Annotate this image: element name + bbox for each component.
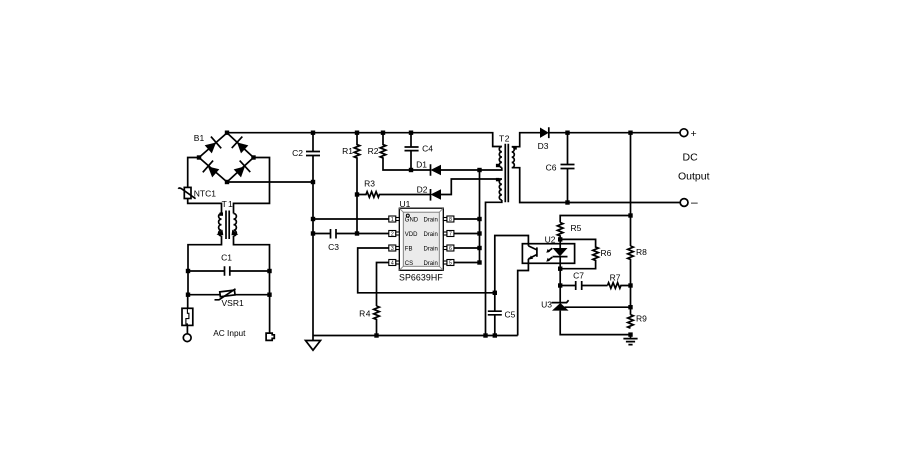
svg-text:5: 5	[449, 261, 452, 267]
node VSR1 right	[267, 293, 271, 297]
node drain top junction	[477, 168, 481, 172]
svg-text:–: –	[691, 195, 698, 209]
wire VSR1 right down to AC terminal right	[269, 295, 271, 333]
wire bulk left rail x=313 upper (to C2 top)	[312, 133, 314, 152]
bridge diode bottom-right	[232, 161, 250, 180]
U1 pin 4 stub	[389, 260, 400, 267]
U1 pin 3 stub	[389, 245, 400, 252]
node bridge bottom	[225, 180, 229, 184]
capacitor C2	[306, 152, 320, 156]
svg-text:1: 1	[391, 217, 394, 223]
node C1 right	[267, 269, 271, 273]
wire drain bus	[479, 170, 481, 263]
node top rail at C4	[409, 131, 413, 135]
diode D2	[430, 189, 432, 201]
bridge diode bottom-left	[203, 161, 221, 180]
svg-text:R7: R7	[610, 273, 621, 283]
T2 primary winding	[499, 147, 502, 168]
wire R5 feed	[560, 216, 630, 223]
svg-text:U3: U3	[541, 299, 552, 309]
wire pin1 GND to bulk rail	[313, 218, 389, 220]
varistor VSR1	[188, 294, 270, 296]
capacitor C6 output	[561, 133, 575, 203]
wire LED line down to U3	[559, 269, 561, 302]
svg-text:R6: R6	[601, 248, 612, 258]
node R3 tap on R1 leg	[355, 192, 359, 196]
U1 pin 2 stub	[389, 231, 400, 238]
svg-text:C6: C6	[546, 163, 557, 173]
svg-text:7: 7	[449, 232, 452, 238]
wire bridge bottom node to bulk rail	[227, 181, 313, 183]
terminal DC minus	[680, 199, 688, 207]
IC U1 body	[399, 208, 443, 270]
svg-text:U1: U1	[400, 199, 411, 209]
svg-text:R2: R2	[368, 146, 379, 156]
capacitor C5	[488, 293, 502, 336]
wire primary ground rail	[313, 335, 518, 337]
node C3 on rail	[311, 231, 315, 235]
node top rail at C2	[311, 131, 315, 135]
node R1 leg on VDD wire	[355, 231, 359, 235]
thermistor NTC1	[184, 187, 191, 198]
svg-text:C4: C4	[422, 144, 433, 154]
T2 aux polarity mark	[496, 178, 499, 181]
U2 phototransistor	[536, 247, 538, 256]
resistor R3	[357, 192, 431, 198]
svg-text:C2: C2	[292, 148, 303, 158]
transformer T1 core	[226, 211, 229, 240]
svg-text:R8: R8	[636, 247, 647, 257]
node O6 top	[565, 131, 569, 135]
wire U3 reference to divider	[565, 306, 631, 308]
T2 core	[505, 144, 508, 203]
svg-text:Drain: Drain	[423, 218, 437, 224]
svg-text:8: 8	[449, 217, 452, 223]
terminal AC right	[266, 333, 274, 340]
svg-text:R9: R9	[636, 314, 647, 324]
svg-text:2: 2	[391, 232, 394, 238]
optocoupler U2 box	[522, 244, 574, 264]
svg-text:R5: R5	[571, 223, 582, 233]
T2 auxiliary winding	[499, 179, 502, 200]
U1 pin1 indicator	[406, 214, 409, 217]
wire top rail from bridge to T2 primary	[227, 133, 502, 147]
node R4 on ground rail	[374, 333, 378, 337]
svg-text:T2: T2	[499, 134, 510, 144]
node top rail at R2	[381, 131, 385, 135]
wire bridge right node down to T1 right winding top	[234, 158, 270, 214]
wire VSR1 left down to fuse	[187, 295, 189, 309]
T2 primary polarity mark	[496, 164, 499, 167]
resistor R4	[374, 306, 380, 336]
transformer T1 left winding	[219, 214, 222, 236]
node drain bus pin5	[477, 260, 481, 264]
wire U2 collector to FB node	[495, 236, 529, 293]
svg-text:DC: DC	[683, 152, 699, 164]
bridge diode top-left	[203, 137, 221, 156]
svg-text:VSR1: VSR1	[222, 298, 244, 308]
svg-text:R4: R4	[359, 309, 371, 319]
U1 pin 7 stub	[443, 231, 454, 238]
wire T1 left winding bottom to C1 left	[188, 236, 222, 271]
node aux return on ground rail	[483, 333, 487, 337]
svg-text:4: 4	[391, 261, 394, 267]
svg-text:C1: C1	[221, 253, 232, 263]
U1 pin 5 stub	[443, 260, 454, 267]
node bridge top	[225, 131, 229, 135]
ground symbol primary	[306, 336, 321, 351]
svg-text:3: 3	[391, 246, 394, 252]
resistor R6 branch	[560, 239, 598, 268]
node bulk rail at bridge return	[311, 180, 315, 184]
wire pin4 CS to R4	[377, 263, 389, 307]
U1 pin 1 stub	[389, 216, 400, 223]
capacitor C1	[188, 266, 270, 275]
svg-text:R1: R1	[342, 146, 353, 156]
bridge rectifier B1 arms	[199, 133, 254, 182]
svg-text:T1: T1	[222, 199, 234, 209]
wire fuse to AC terminal left	[186, 325, 188, 333]
svg-text:Drain: Drain	[423, 261, 437, 267]
svg-text:NTC1: NTC1	[194, 189, 216, 199]
node drain bus pin6	[477, 246, 481, 250]
wire C1 rails down to VSR1 line	[188, 271, 270, 295]
svg-text:SP6639HF: SP6639HF	[399, 272, 443, 282]
svg-text:FB: FB	[405, 247, 413, 253]
shunt regulator U3	[552, 300, 569, 302]
resistor R1	[354, 133, 360, 234]
diode D1	[411, 164, 431, 176]
wire T1 right winding bottom to C1 right	[234, 236, 270, 271]
node VSR1 left	[186, 293, 190, 297]
node bridge right	[251, 155, 255, 159]
node bridge left	[197, 155, 201, 159]
svg-text:D2: D2	[417, 184, 428, 194]
node top rail at R1	[355, 131, 359, 135]
svg-text:R3: R3	[364, 179, 375, 189]
wire bulk left rail x=313 lower (C2 bottom to ground rail)	[312, 156, 314, 336]
wire bridge left node to NTC1	[188, 158, 199, 188]
resistor R8	[628, 246, 634, 315]
wire pin2 VDD with capacitor C3	[313, 229, 389, 239]
T2 secondary winding	[512, 147, 515, 168]
wire drain pins to drain bus	[454, 219, 480, 263]
node drain bus pin7	[477, 231, 481, 235]
wire T2 primary bottom to drain node	[480, 168, 502, 171]
node LED anode / R6 tap	[558, 237, 562, 241]
wire NTC1 bottom to T1 left winding top	[188, 199, 222, 214]
U2 LED	[559, 244, 561, 248]
fuse F1	[182, 308, 193, 325]
svg-text:C3: C3	[328, 242, 339, 252]
ground symbol secondary	[623, 335, 637, 345]
node C5 on ground rail	[493, 333, 497, 337]
svg-text:D1: D1	[416, 159, 427, 169]
node FB / C5 junction	[493, 291, 497, 295]
wire T2 secondary bottom to minus rail	[512, 168, 680, 203]
svg-text:6: 6	[449, 246, 452, 252]
svg-text:C5: C5	[505, 310, 516, 320]
svg-text:Drain: Drain	[423, 232, 437, 238]
svg-text:+: +	[691, 128, 697, 140]
U2 emission arrows	[548, 248, 553, 260]
node drain bus pin8	[477, 217, 481, 221]
svg-text:D3: D3	[538, 141, 549, 151]
wire divider line from plus rail down	[630, 133, 632, 246]
wire pin3 FB to feedback line	[358, 248, 495, 293]
wire T2 secondary top to D3	[512, 133, 540, 147]
capacitor C7	[560, 281, 607, 290]
node divider line top	[628, 131, 632, 135]
svg-text:U2: U2	[545, 234, 556, 244]
node C1 left	[186, 269, 190, 273]
bridge diode top-right	[232, 137, 250, 156]
T1 polarity mark right bottom	[232, 230, 239, 236]
svg-text:VDD: VDD	[405, 232, 418, 238]
U1 pin 6 stub	[443, 245, 454, 252]
wire U2 emitter to primary ground rail	[518, 259, 529, 336]
diode D3	[540, 128, 549, 138]
resistor R5	[557, 223, 563, 244]
node D1 anode junction	[409, 168, 413, 172]
node O6 bottom	[565, 200, 569, 204]
T2 secondary polarity mark	[513, 146, 516, 149]
svg-text:Drain: Drain	[423, 247, 437, 253]
svg-text:GND: GND	[405, 218, 419, 224]
node LED cathode / R6 return	[558, 267, 562, 271]
node secondary ground	[628, 332, 632, 336]
T1 polarity mark left top	[220, 212, 223, 215]
svg-text:C7: C7	[573, 271, 584, 281]
U1 pin 8 stub	[443, 216, 454, 223]
node C7 line right on divider	[628, 283, 632, 287]
resistor R2	[380, 133, 411, 170]
node R5 top wire on divider	[628, 213, 632, 217]
terminal DC plus	[680, 129, 688, 137]
svg-text:Output: Output	[678, 171, 710, 183]
node GND wire on rail	[311, 217, 315, 221]
svg-text:AC Input: AC Input	[213, 328, 246, 338]
terminal AC left	[183, 334, 191, 342]
resistor R7	[608, 283, 631, 289]
wire T2 aux bottom return to ground rail	[486, 200, 502, 336]
node C7 line left	[558, 283, 562, 287]
svg-text:B1: B1	[194, 133, 205, 143]
node reference on divider	[628, 305, 632, 309]
resistor R9	[628, 315, 634, 328]
capacitor C4	[405, 133, 419, 170]
svg-text:CS: CS	[405, 261, 413, 267]
T1 polarity mark left bottom	[217, 230, 224, 236]
transformer T1 right winding	[234, 214, 237, 236]
